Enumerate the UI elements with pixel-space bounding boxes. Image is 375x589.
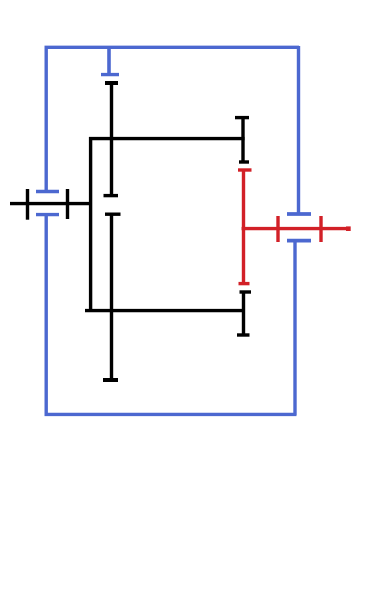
clutch C1 lower plate — [105, 212, 121, 215]
gear G3 stem — [242, 292, 245, 335]
housing frame bottom wall — [45, 413, 297, 416]
brake B1 upper plate — [36, 190, 59, 193]
carrier link left rail — [89, 137, 92, 312]
output bearing 1 — [276, 216, 279, 242]
output shaft — [242, 227, 351, 230]
housing brake stem — [107, 48, 111, 75]
input shaft — [10, 202, 89, 205]
carrier link bottom rail — [85, 309, 245, 312]
housing frame right wall upper — [297, 46, 300, 214]
shaft S1 bottom plate — [103, 378, 118, 382]
gear G2 top plate — [238, 168, 252, 171]
gear G1 bottom plate — [239, 160, 249, 163]
gear G3 top plate — [240, 290, 252, 293]
brake B2 upper plate — [287, 212, 311, 216]
input bearing 2 — [66, 189, 69, 219]
gear G2 stem — [242, 170, 245, 284]
gear G1 stem — [241, 118, 244, 162]
output bearing 2 — [319, 216, 322, 242]
brake B1 lower plate — [36, 213, 59, 216]
housing brake plate — [101, 73, 119, 76]
brake B2 lower plate — [287, 239, 311, 243]
housing frame right wall lower — [293, 241, 296, 415]
shaft S1 upper segment — [110, 83, 113, 196]
carrier link top rail — [89, 137, 245, 140]
clutch C1 upper plate — [104, 194, 119, 197]
input bearing 1 — [26, 189, 29, 220]
gear G2 bottom plate — [239, 282, 250, 285]
housing frame left wall lower — [45, 215, 48, 416]
shaft S1 lower segment — [110, 214, 113, 380]
gear G3 bottom plate — [237, 333, 250, 336]
gear G1 top plate — [235, 116, 249, 119]
shaft S1 top plate — [105, 81, 118, 85]
housing frame top wall — [45, 46, 300, 49]
housing frame left wall upper — [45, 46, 48, 192]
